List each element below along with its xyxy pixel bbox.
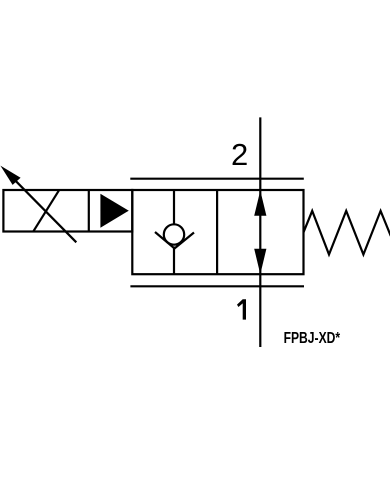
- cartridge cavity line bottom: [130, 285, 304, 287]
- node 1 label: [237, 299, 246, 319]
- check valve flow line upper: [173, 190, 175, 226]
- proportional adjust arrow shaft: [12, 177, 76, 242]
- valve position divider: [216, 190, 218, 274]
- flow arrow down: [254, 249, 266, 274]
- proportional adjust arrowhead: [0, 166, 20, 185]
- pilot triangle: [100, 194, 128, 228]
- check valve seat V: [155, 232, 194, 249]
- cartridge cavity line top: [130, 178, 303, 180]
- solenoid pilot box: [3, 190, 132, 232]
- solenoid box divider: [88, 190, 90, 232]
- solenoid X stroke: [33, 190, 59, 231]
- check valve flow line lower: [173, 247, 175, 275]
- wire port 2 vertical line: [259, 117, 261, 347]
- svg-text:FPBJ-XD*: FPBJ-XD*: [284, 330, 341, 347]
- check valve ball circle: [164, 224, 184, 244]
- valve body rectangle: [132, 190, 303, 274]
- spring: [304, 211, 390, 255]
- flow arrow up: [254, 191, 266, 216]
- svg-text:2: 2: [231, 137, 248, 172]
